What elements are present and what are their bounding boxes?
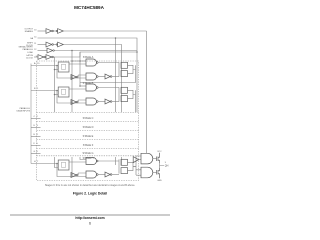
wire OE bus into gate1: [146, 31, 148, 153]
junction dot control bus: [71, 50, 73, 52]
wire pin F stub: [31, 145, 41, 147]
dashed separator D top: [37, 121, 139, 123]
wire latch clock input: [34, 56, 38, 58]
wire serial input to NAND H: [80, 157, 86, 160]
buffer shift clock second: [56, 44, 58, 46]
dashed separator C top: [37, 112, 139, 114]
output gate bottom (NOR): [141, 167, 153, 178]
dashed separator G top: [37, 148, 139, 150]
node LATCH CLOCK label: [26, 54, 39, 60]
svg-text:DATA INPUTS: DATA INPUTS: [17, 110, 31, 113]
svg-text:LOAD: LOAD: [27, 51, 33, 54]
inverter latch clock second: [46, 55, 52, 60]
wire OE bus to right and down: [63, 30, 146, 32]
svg-text:QH: QH: [165, 165, 169, 168]
wire latch B out: [69, 88, 86, 90]
svg-text:STAGE E: STAGE E: [83, 135, 94, 138]
wire parallel bypass A: [57, 66, 86, 79]
footer rule: [10, 214, 170, 216]
wire pin A to latch: [31, 65, 58, 67]
wire latch A out: [69, 63, 86, 65]
wire pin H to latch: [31, 163, 58, 165]
wire pin D stub: [31, 127, 41, 129]
buffer serial shift: [47, 48, 53, 53]
buffer A: [105, 74, 110, 79]
node PARALLEL DATA INPUTS label: [17, 107, 31, 113]
wire: [53, 44, 57, 46]
svg-text:CLOCK: CLOCK: [26, 58, 34, 60]
buffer H: [105, 172, 110, 177]
parallel data inputs bracket: [30, 64, 32, 164]
NAND H bottom: [86, 171, 97, 178]
dashed stage enclosure box: [37, 61, 139, 181]
inverter latch clock first: [38, 55, 44, 60]
svg-text:VCC: VCC: [157, 151, 162, 153]
svg-text:ENABLE: ENABLE: [25, 30, 34, 33]
wire shift clock bus right and down: [63, 45, 121, 113]
wire: [53, 30, 57, 32]
wire serial shift input: [38, 50, 48, 52]
output gate top (AND): [141, 153, 153, 164]
buffer OE second: [56, 30, 58, 32]
dashed separator E top: [37, 130, 139, 132]
wire latch clock tap B: [55, 94, 59, 96]
wire pin B to latch: [31, 90, 58, 92]
svg-text:MC74HC589A: MC74HC589A: [74, 5, 105, 10]
wire inverter H out: [78, 173, 86, 175]
wire FF H outputs bus: [133, 156, 136, 175]
wire latch clock bus down: [53, 52, 80, 112]
latch B box: [58, 87, 69, 97]
svg-text:STAGE C: STAGE C: [83, 117, 94, 120]
wire NAND B top out: [98, 87, 119, 89]
inverter output stage: [133, 157, 138, 163]
svg-text:STAGE D: STAGE D: [83, 126, 94, 129]
svg-text:STAGE B: STAGE B: [83, 82, 94, 85]
NMOS transistor: [157, 168, 160, 178]
wire inverter B out: [78, 100, 86, 102]
dashed separator F top: [37, 139, 139, 141]
NAND B bottom: [86, 98, 97, 105]
wire gate1 out to PMOS gate: [153, 158, 157, 160]
wire serial input to NAND B: [80, 85, 86, 87]
NAND B top: [86, 84, 97, 91]
node SERIAL SHIFT / PARALLEL LOAD label: [19, 46, 38, 54]
flip-flop A cell: [121, 62, 128, 68]
NAND A bottom: [86, 73, 97, 80]
wire buffer A out: [112, 76, 119, 78]
NAND A top: [86, 59, 97, 66]
inverter H: [71, 173, 77, 178]
svg-text:SERIAL SHIFT/: SERIAL SHIFT/: [19, 46, 34, 49]
latch H box: [58, 160, 69, 170]
wire inverter to gate1: [136, 156, 141, 160]
wire serial input to NAND A: [72, 60, 86, 62]
wire parallel bypass B: [57, 91, 86, 104]
inverter B: [71, 100, 77, 105]
wire NAND A top out: [98, 62, 119, 64]
svg-text:PARALLEL: PARALLEL: [20, 107, 31, 110]
inverter shift clock first: [46, 42, 52, 47]
wire serial/parallel control bus: [54, 51, 137, 113]
wire NAND H bottom out: [98, 174, 105, 176]
wire buffer H out: [112, 174, 119, 176]
flip-flop H cell: [121, 159, 128, 165]
wire pin E stub: [31, 136, 41, 138]
wire NAND A bottom out: [98, 76, 105, 78]
wire latch clock tap H: [55, 157, 59, 168]
inverter OE first: [46, 29, 52, 34]
wire pin G stub: [31, 153, 41, 155]
latch A box: [58, 62, 69, 72]
wire latch clock tap A: [55, 69, 59, 71]
svg-text:LATCH: LATCH: [26, 54, 33, 57]
svg-text:GND: GND: [157, 180, 162, 182]
svg-text:G: G: [34, 151, 36, 153]
wire NAND H top out: [98, 160, 119, 162]
dashed separator H top: [37, 155, 139, 157]
PMOS transistor: [157, 153, 160, 163]
wire gate2 out to NMOS gate: [153, 172, 157, 174]
wire output node to QH: [160, 163, 165, 168]
wire SA to right and down: [38, 38, 138, 112]
flip-flop B cell: [121, 87, 128, 93]
inverter A: [71, 75, 77, 80]
wire buffer B out: [112, 101, 119, 103]
buffer B: [105, 99, 110, 104]
NAND H top: [86, 158, 97, 165]
wire shift clock input: [38, 44, 47, 46]
wire latch H out: [69, 161, 86, 163]
wire parallel bypass H: [57, 164, 86, 177]
svg-text:Figure 2. Logic Detail: Figure 2. Logic Detail: [73, 192, 107, 196]
svg-text:STAGE A: STAGE A: [83, 56, 94, 59]
wire FF to gate2: [136, 170, 141, 175]
svg-text:PARALLEL: PARALLEL: [23, 48, 34, 51]
svg-text:6: 6: [89, 222, 91, 226]
wire inverter A out: [78, 75, 86, 77]
serial/PL bus resume H: [72, 157, 122, 175]
node SA label: [30, 36, 37, 40]
node SHIFT CLOCK label: [26, 42, 37, 47]
wire output-enable input: [38, 30, 47, 32]
wire pin C stub: [31, 118, 41, 120]
node OUTPUT ENABLE label: [24, 29, 37, 34]
wire NAND B bottom out: [98, 101, 105, 103]
svg-text:Stages C thru G are not shown: Stages C thru G are not shown in detail …: [45, 184, 136, 187]
svg-text:STAGE F: STAGE F: [83, 144, 94, 147]
svg-text:http://onsemi.com: http://onsemi.com: [75, 216, 104, 220]
svg-text:STAGE G: STAGE G: [83, 152, 94, 155]
